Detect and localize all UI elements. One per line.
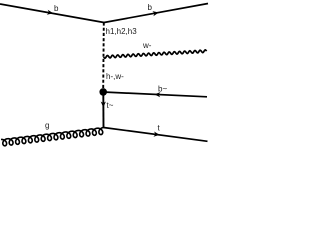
vertex blob [99, 88, 107, 96]
svg-text:b: b [148, 3, 153, 12]
svg-text:h-,w-: h-,w- [106, 72, 124, 81]
antiquark b~ line [103, 92, 207, 97]
svg-text:t: t [158, 124, 161, 133]
quark t line [104, 128, 208, 142]
gluon curly line [1, 128, 104, 146]
svg-text:g: g [45, 121, 49, 130]
quark b incoming line [0, 4, 104, 23]
svg-text:w-: w- [142, 41, 152, 50]
svg-text:b~: b~ [158, 85, 167, 94]
arrow on t [153, 132, 159, 137]
svg-text:h1,h2,h3: h1,h2,h3 [106, 27, 138, 36]
higgs propagator dashed line [102, 23, 105, 90]
arrow on incoming b [47, 10, 53, 15]
boson w- wavy line [104, 50, 207, 58]
antiquark t~ vertical line [102, 92, 104, 128]
svg-text:b: b [54, 4, 59, 13]
quark b outgoing line [104, 4, 208, 23]
arrow on outgoing b [152, 11, 158, 16]
arrow on b~ [154, 92, 160, 97]
svg-text:t~: t~ [107, 101, 114, 110]
arrow on t~ [101, 102, 106, 108]
